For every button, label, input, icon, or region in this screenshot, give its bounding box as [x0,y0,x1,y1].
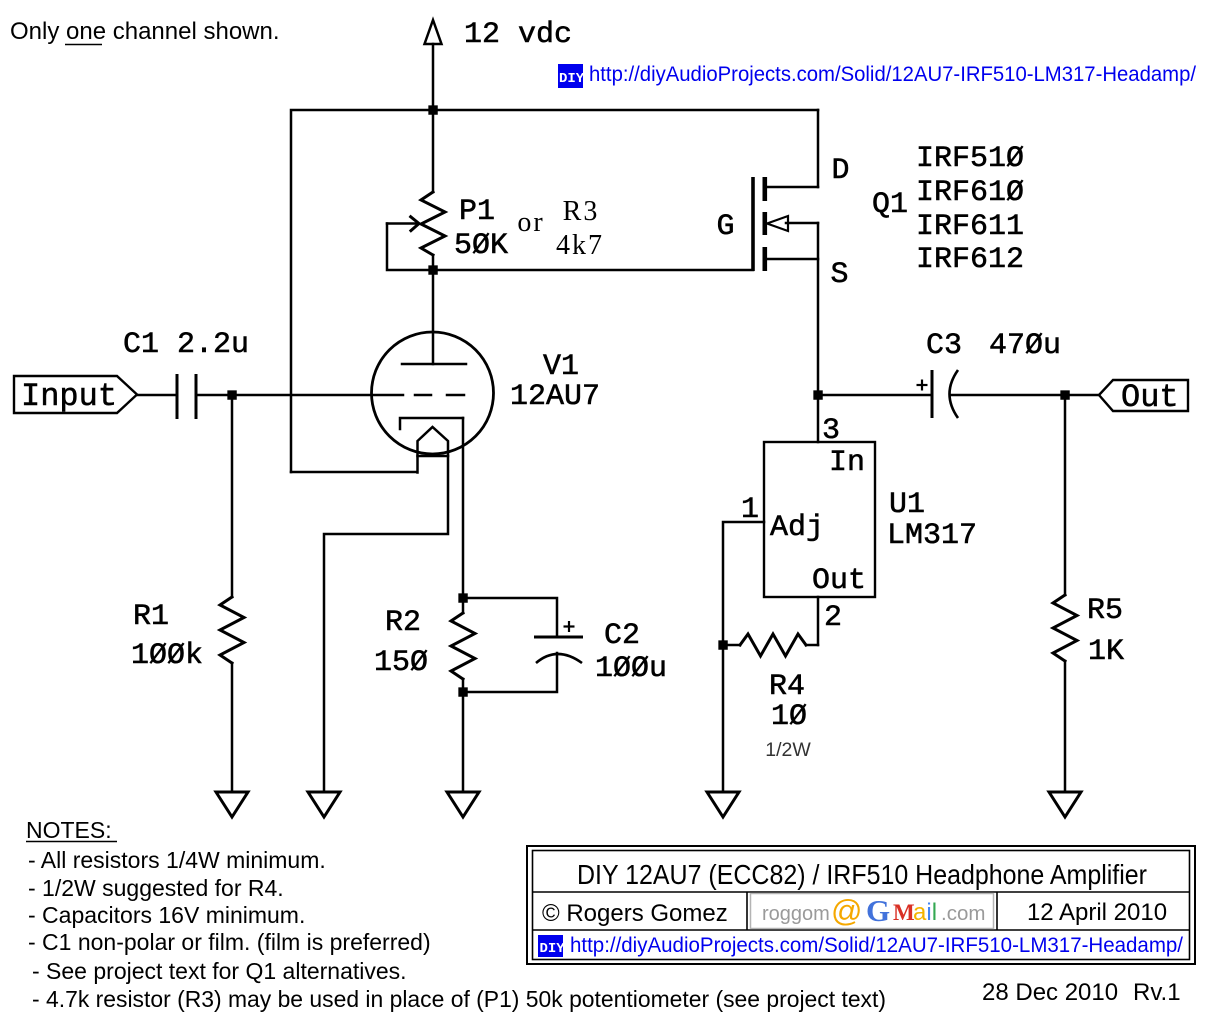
label P1 50K [454,195,508,263]
label R5 1K [1087,594,1124,669]
svg-text:12AU7: 12AU7 [510,380,600,414]
svg-text:- Capacitors 16V minimum.: - Capacitors 16V minimum. [28,902,305,928]
label C2 100u [595,619,667,686]
revision date [982,979,1181,1006]
svg-text:1K: 1K [1088,635,1124,669]
svg-text:http://diyAudioProjects.com/So: http://diyAudioProjects.com/Solid/12AU7-… [589,62,1196,86]
svg-text:IRF61Ø: IRF61Ø [916,176,1024,210]
wire out node to Out [1065,394,1099,397]
svg-text:- C1 non-polar or film. (film: - C1 non-polar or film. (film is preferr… [28,929,431,955]
drain lead [766,186,818,189]
svg-text:LM317: LM317 [887,519,977,553]
junction adj/R4 node [718,640,727,649]
wire heater to rail [291,471,417,474]
svg-text:15Ø: 15Ø [374,646,428,680]
transistor Q1 mosfet [753,177,818,271]
gate bar [751,177,755,271]
wire source node to C3 [818,394,931,397]
wire source down [817,223,820,395]
grid dashes [415,394,431,397]
label D G S Q1 [716,154,908,292]
svg-text:4k7: 4k7 [556,230,604,261]
wire pot bottom to plate [432,255,435,364]
resistor R2 [451,598,475,792]
svg-text:ail: ail [913,899,937,926]
svg-text:R4: R4 [769,670,805,704]
svg-text:U1: U1 [889,488,925,522]
junction pot wiper/bottom [428,265,437,274]
svg-text:3: 3 [822,414,840,448]
junction source node [813,390,822,399]
svg-text:C2: C2 [604,619,640,653]
svg-text:Out: Out [812,564,866,598]
svg-text:C3: C3 [926,329,962,363]
label U1 LM317 [887,488,977,553]
heater [324,427,448,792]
svg-text:D: D [831,154,849,188]
resistor R1 [220,395,244,792]
label V1 12AU7 [510,350,600,414]
svg-text:G: G [866,893,890,928]
junction R2 bottom node [458,687,467,696]
resistor R5 [1053,395,1077,792]
junction input node [227,390,236,399]
gmail address [751,893,994,929]
svg-text:1ØØk: 1ØØk [131,639,203,673]
svg-text:R3: R3 [563,196,600,227]
junction out node [1060,390,1069,399]
svg-text:R1: R1 [133,600,169,634]
svg-text:47Øu: 47Øu [989,329,1061,363]
svg-text:Input: Input [21,378,117,415]
svg-text:http://diyAudioProjects.com/So: http://diyAudioProjects.com/Solid/12AU7-… [570,933,1183,957]
capacitor C1 [177,374,196,419]
svg-text:1ØØu: 1ØØu [595,652,667,686]
ground R4 [707,792,739,817]
svg-text:IRF612: IRF612 [916,243,1024,277]
svg-text:1Ø: 1Ø [771,700,807,734]
svg-text:DIY: DIY [559,71,585,87]
node Out [1099,379,1188,416]
wire pot to gate [433,269,753,272]
svg-text:1/2W: 1/2W [765,739,811,761]
svg-text:.com: .com [941,902,985,925]
svg-text:IRF51Ø: IRF51Ø [916,142,1024,176]
svg-text:@: @ [831,893,862,928]
wire rail to drain [817,110,820,187]
svg-text:© Rogers Gomez: © Rogers Gomez [542,900,728,927]
svg-text:roggom: roggom [762,903,830,925]
node Input [14,376,137,415]
ground R1 [216,792,248,817]
svg-text:P1: P1 [459,195,495,229]
label C3 470u [926,329,1061,363]
svg-text:V1: V1 [543,350,579,384]
svg-text:R5: R5 [1087,594,1123,628]
svg-text:- 1/2W suggested for R4.: - 1/2W suggested for R4. [28,875,284,901]
wire C1 to grid [196,394,403,397]
DIY site icon (title block) [538,935,565,957]
plate [402,363,466,366]
svg-text:C1 2.2u: C1 2.2u [123,328,249,362]
svg-text:DIY: DIY [540,941,566,957]
capacitor C3 [917,370,959,418]
junction top rail / supply [428,105,437,114]
label IRF510 list [916,142,1024,277]
svg-text:Out: Out [1121,379,1179,416]
svg-text:- All resistors 1/4W minimum.: - All resistors 1/4W minimum. [28,847,326,873]
svg-text:M: M [893,900,915,925]
svg-text:In: In [829,446,865,480]
ground heater [308,792,340,817]
DIY site icon (top) [558,64,585,88]
svg-text:- 4.7k resistor (R3) may be us: - 4.7k resistor (R3) may be used in plac… [32,986,886,1012]
label R4 10 1/2W [765,670,811,761]
potentiometer P1 [387,110,445,270]
title block [527,846,1195,964]
wire cathode to R2 [462,418,465,598]
capacitor C2 [463,598,583,692]
svg-text:R2: R2 [385,606,421,640]
label R1 100k [131,600,203,673]
svg-text:28 Dec 2010: 28 Dec 2010 [982,979,1118,1006]
ground R2 [447,792,479,817]
svg-text:IRF611: IRF611 [916,210,1024,244]
cathode [400,418,463,429]
link diyAudioProjects (title block) [570,933,1183,957]
body arrow [767,216,788,231]
wire top rail [291,110,818,472]
channel bars [762,177,767,201]
power symbol 12 vdc [425,20,442,110]
svg-text:G: G [716,210,734,244]
wire C3 to out node [951,394,1065,397]
junction R2 top node [458,593,467,602]
svg-text:12 vdc: 12 vdc [464,18,572,52]
label R2 150 [374,606,428,680]
svg-text:Only one channel shown.: Only one channel shown. [10,18,280,45]
wire adj pin [723,522,764,645]
label or R3 4k7 [517,196,604,261]
svg-text:or: or [517,207,544,238]
svg-text:2: 2 [824,601,842,635]
svg-text:5ØK: 5ØK [454,229,508,263]
note: only one channel shown [10,18,280,45]
wire adj to ground [722,645,725,792]
op-amp U1 LM317 regulator [741,395,875,635]
wire out pin down [817,597,820,645]
svg-text:Rv.1: Rv.1 [1133,979,1181,1006]
svg-text:DIY 12AU7 (ECC82) / IRF510 Hea: DIY 12AU7 (ECC82) / IRF510 Headphone Amp… [577,859,1147,890]
source lead [766,258,818,261]
svg-text:Q1: Q1 [872,188,908,222]
svg-text:- See project text for Q1 alte: - See project text for Q1 alternatives. [32,958,407,984]
tube V1 12AU7 [324,332,494,792]
svg-text:S: S [830,258,848,292]
ground R5 [1049,792,1081,817]
svg-text:Adj: Adj [770,511,824,545]
NOTES block [26,817,886,1012]
wire input to C1 [137,394,176,397]
resistor R4 [723,634,818,656]
svg-text:NOTES:: NOTES: [26,817,112,843]
svg-text:12 April 2010: 12 April 2010 [1027,899,1167,926]
